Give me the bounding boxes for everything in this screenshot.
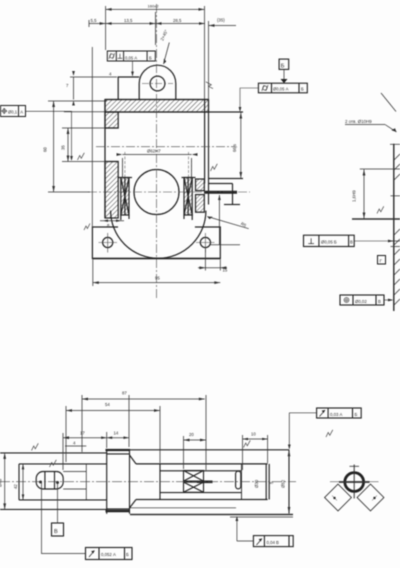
svg-text:10: 10 xyxy=(251,432,256,437)
svg-text:60: 60 xyxy=(43,147,48,152)
svg-text:В: В xyxy=(350,240,353,245)
svg-text:160±2: 160±2 xyxy=(148,4,160,9)
svg-text:(35): (35) xyxy=(217,18,225,23)
svg-text:Б: Б xyxy=(355,412,358,417)
svg-text:35: 35 xyxy=(61,145,66,150)
svg-text:54: 54 xyxy=(105,402,110,407)
svg-text:1,6H9: 1,6H9 xyxy=(352,190,357,202)
svg-text:5,5: 5,5 xyxy=(91,18,98,23)
svg-text:17: 17 xyxy=(80,431,85,436)
svg-text:0,03 А: 0,03 А xyxy=(330,412,343,417)
svg-text:4: 4 xyxy=(109,72,112,77)
svg-text:Ø0,02: Ø0,02 xyxy=(355,299,367,304)
svg-text:Б: Б xyxy=(149,55,152,60)
svg-text:В: В xyxy=(378,299,381,304)
svg-text:0,04 В: 0,04 В xyxy=(267,540,280,545)
svg-text:Ø0,1: Ø0,1 xyxy=(8,109,18,114)
svg-text:Ø0,05 Б: Ø0,05 Б xyxy=(321,240,337,245)
svg-text:Б: Б xyxy=(301,87,304,92)
svg-text:Ø0,05 А: Ø0,05 А xyxy=(273,87,289,92)
svg-text:15: 15 xyxy=(223,268,228,273)
svg-text:Ø62H7: Ø62H7 xyxy=(147,149,161,154)
svg-text:4: 4 xyxy=(73,441,76,446)
svg-text:95: 95 xyxy=(155,276,160,281)
svg-text:А: А xyxy=(20,109,23,114)
svg-text:87: 87 xyxy=(122,391,127,396)
svg-text:13,5: 13,5 xyxy=(124,18,133,23)
svg-text:2×45°: 2×45° xyxy=(159,29,168,42)
svg-text:0,052 А: 0,052 А xyxy=(101,552,116,557)
svg-text:В: В xyxy=(54,529,58,535)
svg-text:R5: R5 xyxy=(240,221,248,228)
svg-text:Ø52: Ø52 xyxy=(281,479,286,488)
svg-text:66js: 66js xyxy=(232,144,237,152)
svg-text:42: 42 xyxy=(13,484,18,489)
svg-text:7: 7 xyxy=(66,83,69,88)
svg-text:2 отв. Ø10H9: 2 отв. Ø10H9 xyxy=(345,119,372,124)
svg-text:0,05 А: 0,05 А xyxy=(125,55,137,60)
svg-text:14: 14 xyxy=(114,431,119,436)
svg-text:Б: Б xyxy=(126,552,129,557)
svg-text:Г: Г xyxy=(380,258,383,263)
svg-text:Ø48: Ø48 xyxy=(0,478,3,487)
svg-text:Ø30: Ø30 xyxy=(254,479,259,488)
svg-text:20: 20 xyxy=(189,432,194,437)
svg-text:Б: Б xyxy=(281,63,285,69)
svg-text:28,5: 28,5 xyxy=(173,18,182,23)
